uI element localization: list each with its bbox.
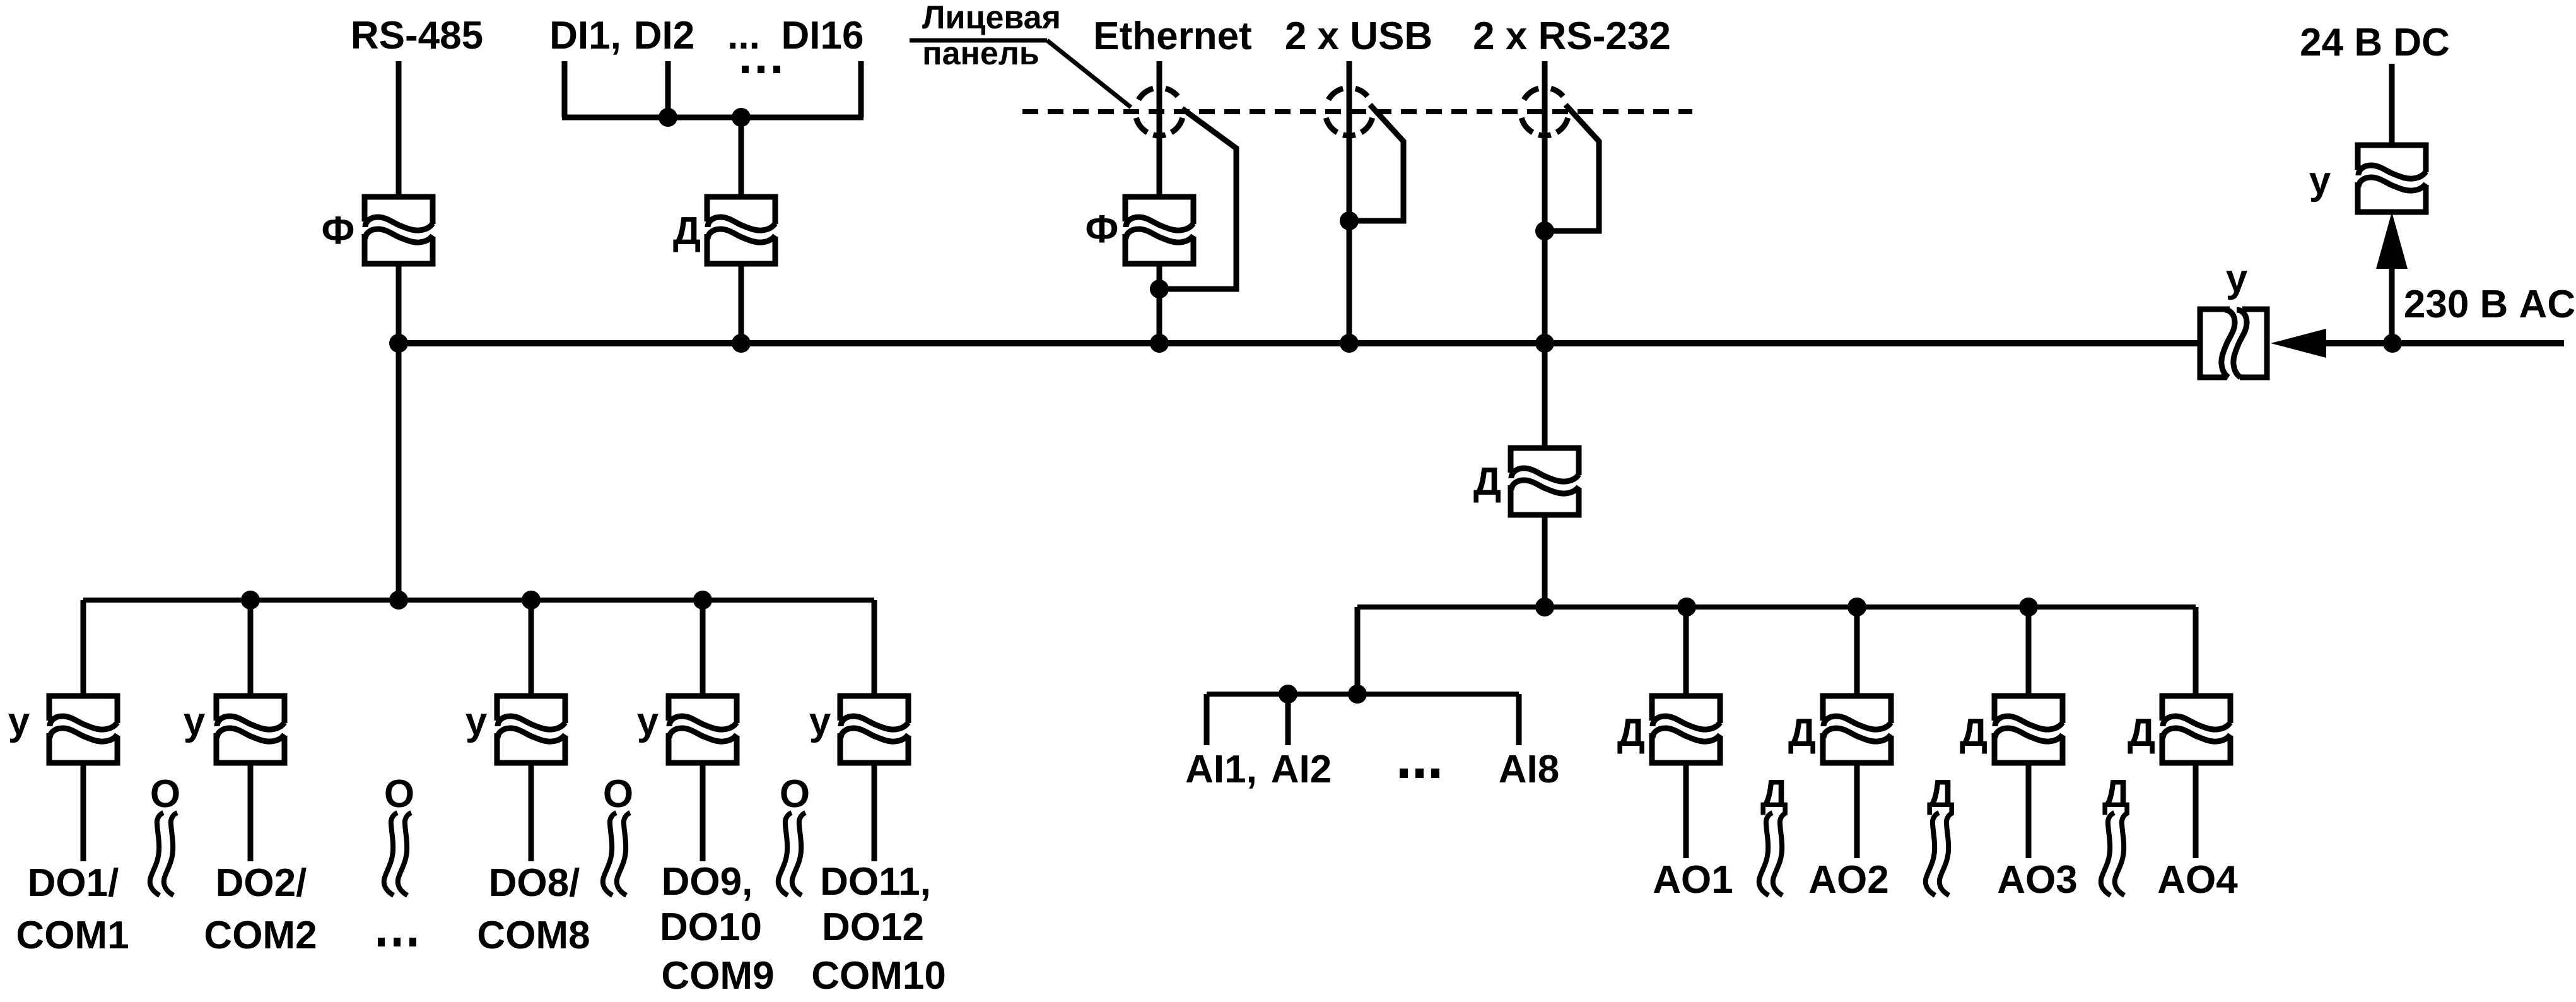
svg-text:DI16: DI16 (782, 14, 864, 57)
svg-text:DI1,: DI1, (549, 14, 621, 57)
svg-text:Д: Д (1927, 772, 1955, 816)
svg-text:...: ... (727, 14, 760, 57)
svg-text:AI1,: AI1, (1185, 748, 1257, 791)
svg-text:О: О (384, 772, 414, 816)
svg-text:AI8: AI8 (1499, 748, 1559, 791)
svg-text:DO10: DO10 (660, 905, 762, 949)
svg-text:у: у (809, 700, 831, 743)
svg-text:Д: Д (1473, 460, 1501, 504)
svg-text:у: у (2309, 159, 2331, 203)
svg-text:RS-485: RS-485 (351, 14, 483, 57)
svg-text:DO12: DO12 (822, 905, 924, 949)
svg-text:DO9,: DO9, (662, 860, 753, 904)
svg-text:DO2/: DO2/ (216, 861, 307, 905)
svg-text:COM9: COM9 (661, 954, 774, 998)
svg-text:AI2: AI2 (1271, 748, 1332, 791)
svg-text:AO2: AO2 (1808, 858, 1888, 902)
svg-text:у: у (184, 700, 206, 743)
svg-text:Лицевая: Лицевая (922, 0, 1061, 36)
svg-text:у: у (465, 700, 488, 743)
svg-text:у: у (8, 700, 30, 743)
svg-text:COM8: COM8 (477, 914, 590, 957)
svg-text:AO4: AO4 (2157, 858, 2238, 902)
svg-text:DI2: DI2 (634, 14, 694, 57)
svg-text:Ethernet: Ethernet (1093, 15, 1251, 58)
svg-text:COM2: COM2 (204, 914, 317, 957)
svg-text:Д: Д (1960, 711, 1988, 755)
svg-text:у: у (2226, 257, 2248, 300)
svg-text:2 x USB: 2 x USB (1285, 15, 1432, 58)
svg-text:AO3: AO3 (1997, 858, 2077, 902)
svg-text:DO11,: DO11, (820, 860, 931, 904)
svg-text:О: О (603, 772, 633, 816)
svg-text:COM10: COM10 (811, 954, 946, 998)
svg-text:COM1: COM1 (16, 914, 129, 957)
svg-text:Д: Д (2102, 772, 2130, 816)
svg-text:AO1: AO1 (1653, 858, 1733, 902)
svg-text:2 x RS-232: 2 x RS-232 (1473, 15, 1671, 58)
svg-text:DO8/: DO8/ (489, 861, 580, 905)
svg-text:230 В AC: 230 В AC (2404, 283, 2575, 326)
svg-text:24 В DC: 24 В DC (2300, 21, 2450, 64)
svg-text:панель: панель (922, 35, 1039, 72)
svg-text:у: у (637, 700, 659, 743)
svg-text:Д: Д (1760, 772, 1788, 816)
svg-text:О: О (780, 772, 810, 816)
svg-text:Д: Д (1617, 711, 1645, 755)
svg-text:Д: Д (2128, 711, 2155, 755)
svg-text:О: О (150, 772, 180, 816)
svg-text:Д: Д (1788, 711, 1816, 755)
svg-text:DO1/: DO1/ (28, 861, 119, 905)
svg-text:Д: Д (673, 209, 701, 253)
svg-text:Ф: Ф (1086, 208, 1119, 251)
svg-text:Ф: Ф (322, 209, 355, 252)
